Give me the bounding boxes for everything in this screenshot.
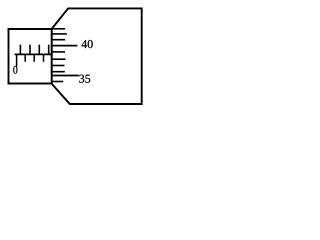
sleeve upper tick x20.4 [19,45,21,55]
thimble minor tick y65.5 [52,65,65,67]
thimble minor tick y71.7 [52,71,65,73]
thimble outline (chamfered body) [52,8,142,104]
sleeve label 0 [13,66,17,74]
thimble label 35 [79,75,90,83]
sleeve lower tick x16.6 (touches 0 label) [16,54,18,67]
sleeve datum line [15,53,53,55]
sleeve lower tick x43.5 [43,54,45,62]
thimble major tick 35 [52,75,79,77]
sleeve lower tick x34.2 [33,54,35,62]
thimble minor tick y81.5 [52,81,63,83]
thimble label 40 [81,40,92,48]
thimble major tick 40 [52,45,77,47]
sleeve upper tick x48.7 [48,45,50,55]
thimble minor tick y28.6 [52,28,65,30]
sleeve upper tick x30 [29,45,31,55]
thimble minor tick y33.9 [52,33,67,35]
thimble minor tick y39.7 [52,39,65,41]
thimble minor tick y59.2 [52,58,66,60]
sleeve barrel outline (left box: left, top, bottom edges) [8,28,53,84]
sleeve lower tick x25.2 [24,54,26,62]
sleeve upper tick x39.3 [38,45,40,55]
thimble left edge (vertical reading edge) [51,28,53,85]
thimble minor tick y51.9 [52,51,65,53]
